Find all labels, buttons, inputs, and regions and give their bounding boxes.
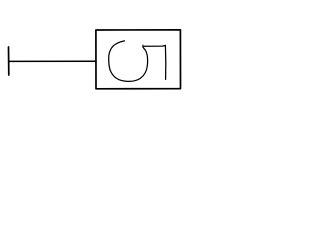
wire bbox=[9, 60, 96, 62]
flag tick bbox=[142, 45, 144, 47]
circle (open loop) bbox=[109, 41, 148, 82]
terminal T1 bbox=[8, 47, 10, 75]
box U1 bbox=[96, 30, 181, 89]
flag polyline bbox=[144, 45, 166, 79]
